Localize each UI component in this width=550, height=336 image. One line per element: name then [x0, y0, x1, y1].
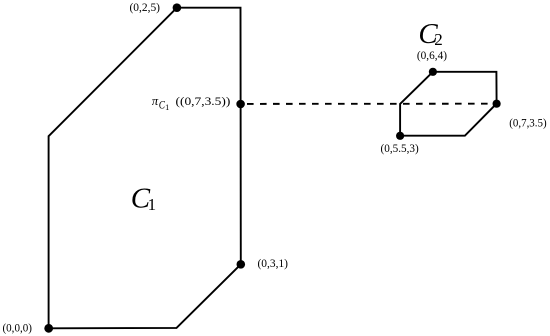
- svg-text:(0,2,5): (0,2,5): [130, 0, 161, 14]
- vertex dot (0,3,1): [237, 260, 246, 269]
- svg-text:(0,3,1): (0,3,1): [258, 256, 289, 270]
- vertex dot (0,6,4): [429, 68, 437, 76]
- svg-text:((0,7,3.5)): ((0,7,3.5)): [176, 94, 231, 108]
- svg-text:1: 1: [165, 103, 169, 112]
- vertex dot pi_C1((0,7,3.5)): [236, 100, 245, 109]
- polygon C1 outline: [49, 8, 241, 329]
- vertex dot (0,5.5,3): [396, 132, 404, 140]
- vertex dot (0,2,5): [173, 3, 182, 12]
- label pi_C1((0,7,3.5)): [152, 94, 230, 112]
- dashed projection line from pi point on C1 to vertex (0,7,3.5) of C2: [247, 103, 497, 105]
- polygon C2 outline: [400, 72, 497, 136]
- svg-text:(0,7,3.5): (0,7,3.5): [509, 115, 546, 129]
- svg-text:(0,6,4): (0,6,4): [417, 48, 447, 62]
- svg-text:(0,0,0): (0,0,0): [3, 320, 32, 334]
- svg-text:(0,5.5,3): (0,5.5,3): [381, 141, 419, 155]
- vertex dot (0,0,0): [44, 324, 53, 333]
- vertex dot (0,7,3.5): [493, 100, 501, 108]
